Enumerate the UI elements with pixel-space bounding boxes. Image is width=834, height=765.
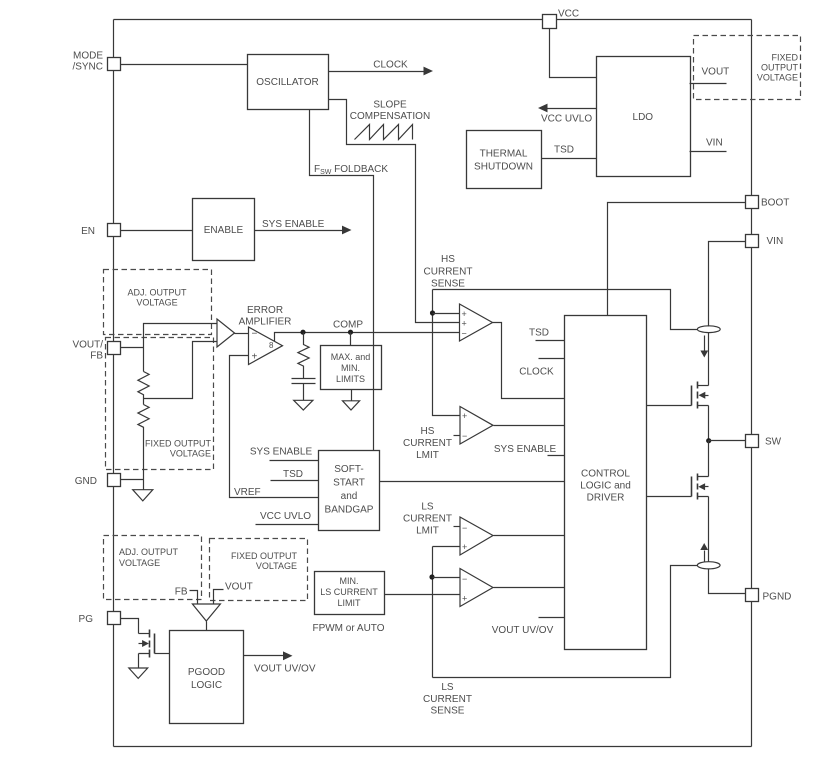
transistor Q-PG open-drain fet	[139, 630, 155, 669]
wire HS current sense from power stage	[424, 254, 698, 330]
svg-text:LS: LS	[441, 682, 454, 693]
wire FB to mux	[175, 587, 198, 605]
wire SYS ENABLE stub to control logic	[494, 444, 565, 456]
svg-text:LOGIC and: LOGIC and	[580, 481, 631, 492]
svg-text:VCC: VCC	[558, 9, 579, 20]
wire LS limit plus input	[433, 546, 461, 548]
comparator HS current limit	[403, 407, 493, 462]
svg-text:PGOOD: PGOOD	[188, 667, 225, 678]
wire VREF to op-amp + input	[230, 356, 319, 498]
svg-text:HS: HS	[421, 426, 435, 437]
ground symbol below PG fet	[129, 668, 148, 678]
HS current sense element (ellipse)	[697, 326, 720, 333]
svg-text:VOUT UV/OV: VOUT UV/OV	[492, 625, 554, 636]
svg-text:START: START	[333, 478, 365, 489]
svg-text:/SYNC: /SYNC	[72, 62, 103, 73]
wire CLOCK stub to control logic	[519, 359, 564, 378]
wire LS current sense path	[423, 566, 697, 717]
wire min LS comparator output to control logic	[494, 587, 565, 589]
svg-text:CONTROL: CONTROL	[581, 469, 630, 480]
wire TSD stub to soft-start	[271, 469, 319, 481]
svg-text:−: −	[462, 523, 467, 533]
max min limits block	[321, 346, 382, 390]
wire LS limit minus stub	[454, 526, 461, 528]
error amplifier input buffer triangle	[217, 319, 235, 347]
node LS sense junction	[429, 574, 434, 579]
ground symbol comp network	[294, 400, 313, 410]
control logic and driver block	[565, 316, 647, 650]
pin MODE/SYNC	[72, 51, 120, 73]
wire VCC UVLO arrow from LDO	[538, 104, 597, 125]
wire HS gate from control logic	[647, 405, 692, 407]
wire VOUT UV/OV arrow from pgood logic	[244, 651, 316, 674]
comparator LS current limit	[403, 502, 493, 556]
wire BOOT to control logic	[608, 203, 746, 316]
capacitor comp network	[292, 379, 316, 401]
resistor R-bottom of divider	[138, 405, 149, 490]
svg-text:LMIT: LMIT	[416, 526, 439, 537]
pin VOUT/FB	[72, 340, 120, 362]
svg-text:VOLTAGE: VOLTAGE	[170, 449, 211, 459]
svg-text:TSD: TSD	[554, 145, 574, 156]
svg-text:SLOPE: SLOPE	[373, 100, 407, 111]
svg-text:SYS ENABLE: SYS ENABLE	[494, 444, 557, 455]
svg-text:FIXED OUTPUT: FIXED OUTPUT	[231, 551, 298, 561]
pin BOOT	[746, 196, 790, 209]
svg-text:THERMAL: THERMAL	[480, 149, 528, 160]
svg-text:COMPENSATION: COMPENSATION	[350, 111, 430, 122]
svg-text:COMP: COMP	[333, 320, 363, 331]
wire slope compensation to HS comparator	[329, 100, 460, 323]
svg-text:MIN.: MIN.	[340, 576, 359, 586]
svg-text:ENABLE: ENABLE	[204, 225, 244, 236]
LS current direction arrow	[700, 543, 708, 562]
svg-text:AMPLIFIER: AMPLIFIER	[239, 317, 292, 328]
svg-text:LDO: LDO	[633, 112, 654, 123]
op-amp U-EA error amplifier	[239, 305, 292, 365]
svg-text:CURRENT: CURRENT	[423, 694, 472, 705]
svg-text:MIN.: MIN.	[341, 363, 360, 373]
comparator HS current sense	[460, 304, 493, 341]
wire VOUT to mux	[214, 582, 253, 605]
resistor comp network	[298, 333, 309, 379]
wire LS fet to PGND	[709, 569, 746, 594]
wire Fsw foldback crossing limits block	[373, 346, 375, 390]
svg-text:+: +	[252, 352, 258, 363]
dashed box fixed output voltage (top right)	[694, 36, 801, 100]
svg-text:VCC UVLO: VCC UVLO	[541, 114, 592, 125]
wire VIN stub from LDO	[690, 138, 727, 152]
svg-text:SW: SW	[765, 437, 782, 448]
soft-start and bandgap block	[319, 451, 380, 531]
mux triangle into pgood logic	[192, 604, 220, 631]
svg-text:8: 8	[269, 341, 274, 350]
wire LS junction to min comparator minus	[433, 577, 461, 579]
svg-text:BOOT: BOOT	[761, 198, 789, 209]
dashed box fixed output voltage (left)	[106, 338, 214, 470]
wire HS limit minus stub	[454, 435, 461, 437]
svg-text:OSCILLATOR: OSCILLATOR	[256, 77, 318, 88]
pin PG	[79, 612, 121, 626]
svg-text:LS: LS	[421, 502, 434, 513]
node COMP rc junction	[300, 330, 305, 335]
svg-text:ERROR: ERROR	[247, 305, 283, 316]
svg-text:−: −	[252, 329, 258, 340]
svg-text:LMIT: LMIT	[416, 450, 439, 461]
svg-text:VOUT: VOUT	[702, 67, 730, 78]
wire ellipse to HS fet drain	[708, 333, 710, 386]
svg-text:VIN: VIN	[767, 236, 784, 247]
svg-text:LIMIT: LIMIT	[337, 598, 361, 608]
oscillator U-OSC	[248, 55, 329, 110]
svg-text:PGND: PGND	[763, 592, 792, 603]
wire LS gate from control logic	[647, 496, 692, 498]
ground symbol below divider	[133, 490, 153, 501]
svg-text:EN: EN	[81, 226, 95, 237]
svg-text:GND: GND	[75, 476, 97, 487]
svg-text:SENSE: SENSE	[431, 279, 465, 290]
enable block	[193, 199, 255, 261]
svg-text:VOUT/: VOUT/	[72, 340, 103, 351]
wire PG pin to fet drain	[121, 619, 139, 634]
wire VIN pin to HS fet	[709, 242, 746, 327]
wire min LS block to comparator plus	[385, 594, 461, 596]
pin VIN	[746, 235, 784, 248]
wire LS limit output to control logic	[494, 535, 565, 537]
svg-text:−: −	[462, 329, 467, 339]
wire SYS ENABLE arrow	[255, 219, 352, 234]
svg-text:VOUT: VOUT	[225, 582, 253, 593]
pin SW	[746, 435, 782, 448]
svg-text:+: +	[462, 542, 467, 552]
pin VCC	[543, 9, 580, 29]
transistor Q-HS high-side fet	[692, 382, 709, 441]
svg-text:−: −	[462, 574, 467, 584]
wire PG gate from pgood logic	[155, 653, 170, 655]
wire Fsw foldback from oscillator to soft-start	[310, 110, 389, 451]
dashed box adj output voltage (upper)	[104, 270, 212, 335]
wire soft-start to control logic	[380, 481, 565, 483]
node HS sense junction	[430, 310, 435, 315]
svg-text:VCC UVLO: VCC UVLO	[260, 511, 311, 522]
wire divider tap to amplifier	[144, 342, 218, 399]
wire VOUT stub from LDO	[690, 67, 730, 84]
svg-text:VREF: VREF	[234, 487, 261, 498]
wire SYS ENABLE stub to soft-start	[250, 446, 319, 460]
svg-text:LS CURRENT: LS CURRENT	[320, 587, 378, 597]
svg-text:VOLTAGE: VOLTAGE	[256, 561, 297, 571]
wire bottom frame	[114, 746, 752, 748]
wire HS sense vertical to comparators	[433, 290, 461, 416]
wire MODE/SYNC to oscillator	[121, 64, 248, 66]
wire left frame	[113, 20, 115, 747]
pin PGND	[746, 589, 792, 603]
wire CLOCK with arrow	[329, 60, 434, 76]
svg-text:and: and	[341, 491, 358, 502]
svg-text:HS: HS	[441, 254, 455, 265]
pin EN	[81, 224, 120, 238]
LDO block	[597, 57, 691, 177]
svg-text:SYS ENABLE: SYS ENABLE	[250, 446, 313, 457]
min LS current limit block	[312, 572, 384, 635]
wire TSD thermal-shutdown to LDO	[542, 145, 597, 159]
ground symbol below limits block	[343, 401, 360, 410]
wire GND pin to divider bottom	[121, 479, 144, 481]
node COMP limits junction	[348, 330, 353, 335]
wire limits block down	[351, 390, 353, 401]
svg-text:TSD: TSD	[529, 328, 549, 339]
pgood logic block	[170, 631, 244, 724]
svg-text:ADJ. OUTPUT: ADJ. OUTPUT	[119, 547, 179, 557]
pin GND	[75, 474, 121, 488]
svg-text:CURRENT: CURRENT	[403, 438, 452, 449]
svg-text:OUTPUT: OUTPUT	[761, 63, 799, 73]
svg-text:DRIVER: DRIVER	[587, 493, 625, 504]
wire SW junction to pin	[709, 440, 746, 442]
svg-text:CURRENT: CURRENT	[403, 514, 452, 525]
svg-text:VOLTAGE: VOLTAGE	[757, 73, 798, 83]
wire right frame	[751, 20, 753, 747]
svg-text:+: +	[462, 309, 467, 319]
svg-text:BANDGAP: BANDGAP	[325, 505, 374, 516]
svg-text:TSD: TSD	[283, 469, 303, 480]
wire HS sense to comparator top input	[433, 313, 460, 315]
svg-text:FIXED OUTPUT: FIXED OUTPUT	[145, 439, 212, 449]
svg-text:FB: FB	[175, 587, 188, 598]
HS current direction arrow	[700, 336, 708, 358]
wire COMP from op-amp output to HS comparator	[275, 320, 460, 342]
wire VCC to LDO	[550, 28, 597, 78]
svg-text:SENSE: SENSE	[431, 706, 465, 717]
svg-text:LOGIC: LOGIC	[191, 680, 222, 691]
wire top frame	[114, 19, 752, 21]
svg-text:MAX. and: MAX. and	[331, 352, 371, 362]
svg-text:FIXED: FIXED	[771, 53, 798, 63]
wire HS comparator output to control logic	[493, 323, 565, 399]
svg-text:FPWM or AUTO: FPWM or AUTO	[312, 623, 384, 634]
svg-text:VOLTAGE: VOLTAGE	[119, 558, 160, 568]
svg-text:VOUT UV/OV: VOUT UV/OV	[254, 664, 316, 675]
wire LS sense vertical	[432, 547, 434, 678]
svg-text:+: +	[462, 594, 467, 604]
svg-text:PG: PG	[79, 614, 94, 625]
slope compensation sawtooth	[350, 100, 430, 140]
svg-text:VOLTAGE: VOLTAGE	[136, 298, 177, 308]
svg-text:LIMITS: LIMITS	[336, 374, 365, 384]
node SW junction	[706, 438, 711, 443]
wire FB node up to amplifier input	[144, 324, 218, 372]
svg-text:FB: FB	[90, 351, 103, 362]
svg-text:SYS ENABLE: SYS ENABLE	[262, 219, 325, 230]
svg-text:MODE: MODE	[73, 51, 103, 62]
svg-text:ADJ. OUTPUT: ADJ. OUTPUT	[127, 288, 187, 298]
dashed box adj output voltage (lower)	[104, 536, 202, 600]
svg-text:−: −	[462, 431, 467, 441]
LS current sense element (ellipse)	[697, 562, 720, 569]
resistor R-top of divider	[138, 372, 149, 405]
wire VOUT UV/OV stub to control logic	[492, 618, 565, 637]
svg-text:CLOCK: CLOCK	[519, 367, 554, 378]
svg-text:CURRENT: CURRENT	[424, 267, 473, 278]
wire VCC UVLO stub to soft-start	[256, 511, 319, 525]
thermal shutdown block	[467, 131, 542, 189]
wire HS limit output to control logic	[494, 425, 565, 427]
svg-text:CLOCK: CLOCK	[373, 60, 408, 71]
wire buffer to op-amp	[235, 333, 249, 335]
wire FB pin to divider	[121, 347, 144, 349]
svg-text:+: +	[462, 319, 467, 329]
wire EN to enable block	[121, 230, 193, 232]
svg-text:VIN: VIN	[706, 138, 723, 149]
wire COMP to max min limits	[350, 333, 352, 346]
comparator min LS current	[460, 569, 493, 607]
wire TSD stub to control logic	[529, 328, 565, 341]
svg-text:+: +	[462, 411, 467, 421]
svg-text:SHUTDOWN: SHUTDOWN	[474, 162, 533, 173]
transistor Q-LS low-side fet	[692, 441, 709, 562]
dashed box fixed output voltage (lower)	[210, 539, 308, 601]
svg-text:SOFT-: SOFT-	[334, 464, 363, 475]
